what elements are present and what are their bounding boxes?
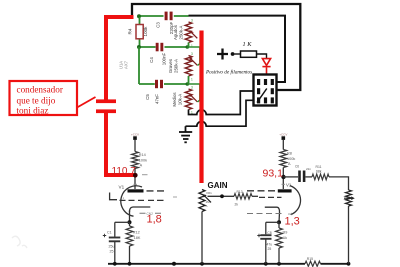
wire anode feed <box>134 169 136 190</box>
node: row3 junction pot <box>186 82 190 86</box>
wire <box>235 53 241 55</box>
wire <box>306 176 313 178</box>
svg-text:R14: R14 <box>139 153 146 157</box>
svg-text:100k: 100k <box>287 157 295 161</box>
capacitor C3 <box>156 12 175 35</box>
svg-text:A: A <box>206 204 208 208</box>
svg-text:V1: V1 <box>286 183 292 188</box>
red wire: cap to tone stack input (top) <box>106 17 134 101</box>
resistor R8 <box>280 150 295 168</box>
node: V2 cathode junction <box>277 220 281 224</box>
svg-text:GAIN: GAIN <box>208 181 228 190</box>
node <box>220 194 224 198</box>
condensador cap plates <box>96 99 116 103</box>
wire to C1 <box>115 221 130 223</box>
connector CN1 (socket) <box>254 75 277 106</box>
wire to C8 <box>266 221 279 223</box>
svg-text:18K: 18K <box>134 236 141 240</box>
node: row2 junction pot <box>186 45 190 49</box>
wire <box>257 54 267 58</box>
svg-text:+CCV: +CCV <box>279 132 287 136</box>
svg-text:R15: R15 <box>307 257 313 261</box>
node: V1 anode junction <box>133 173 137 177</box>
ground <box>179 126 192 142</box>
svg-text:A: A <box>140 164 143 168</box>
svg-text:A: A <box>288 162 291 166</box>
wire B: ground to connector (hops red line) <box>186 100 254 126</box>
svg-text:V1: V1 <box>119 184 125 189</box>
svg-text:250k-A: 250k-A <box>173 59 178 73</box>
wire anode feed V2 <box>282 168 284 190</box>
svg-text:C4: C4 <box>149 57 154 63</box>
svg-text:toni diaz: toni diaz <box>17 106 49 116</box>
svg-text:C3: C3 <box>156 22 161 28</box>
potentiometer Graves 250k-A <box>168 47 200 84</box>
svg-text:C8: C8 <box>267 231 271 235</box>
wire: tone row2 green <box>139 46 189 48</box>
red wire: cap down to V1 anode node <box>106 112 137 175</box>
wire anode row to C6 <box>284 176 299 178</box>
svg-text:C6: C6 <box>295 164 299 168</box>
svg-text:+CCV: +CCV <box>131 132 139 136</box>
svg-text:R13: R13 <box>237 190 243 194</box>
svg-text:3: 3 <box>191 52 193 56</box>
svg-text:C5: C5 <box>145 94 150 100</box>
red wire: tone output to GAIN (vertical) <box>199 31 203 184</box>
svg-text:Positivo de filamentos: Positivo de filamentos <box>205 69 252 76</box>
node: row2 junction left <box>137 45 141 49</box>
node: row1 junction <box>137 14 141 18</box>
svg-text:3: 3 <box>191 19 193 23</box>
svg-text:que te dijo: que te dijo <box>17 96 56 106</box>
resistor R9 <box>276 222 288 263</box>
svg-text:47u: 47u <box>267 243 273 247</box>
triode V1 <box>110 184 164 216</box>
svg-text:AX7: AX7 <box>124 60 129 69</box>
capacitor C8 <box>257 222 272 263</box>
resistor R4 <box>128 17 149 47</box>
svg-text:2k: 2k <box>235 202 239 206</box>
resistor R13 <box>234 190 258 207</box>
svg-text:1 K: 1 K <box>243 41 253 48</box>
svg-text:25u: 25u <box>109 244 115 248</box>
svg-text:25: 25 <box>268 247 272 251</box>
wire: V1 cathode down <box>129 211 131 223</box>
node: V1 anode junction (over red) <box>133 173 138 178</box>
svg-text:R4: R4 <box>128 28 133 34</box>
wire A: Medios bottom to connector (hops red line) <box>189 91 254 115</box>
svg-text:110,7: 110,7 <box>112 166 137 177</box>
resistor R11 <box>312 165 329 180</box>
svg-text:22n: 22n <box>306 167 311 171</box>
triode V2 <box>247 183 301 223</box>
node: V2 anode junction <box>281 175 285 179</box>
capacitor C6 <box>295 164 311 182</box>
potentiometer Medios 10k-A <box>172 84 200 115</box>
svg-text:93,1: 93,1 <box>263 168 284 180</box>
wire <box>134 140 136 152</box>
wire: left green rail row2-row3 <box>138 47 140 84</box>
resistor R14 <box>132 152 148 169</box>
wire: outer black loop from tone-stack input to connector right <box>132 4 300 90</box>
node: V1 cathode junction <box>128 220 132 224</box>
svg-text:1: 1 <box>191 78 193 82</box>
resistor 1K (box) <box>241 51 257 57</box>
svg-text:100nF: 100nF <box>162 52 167 65</box>
capacitor C4 <box>149 43 167 65</box>
svg-text:1: 1 <box>123 196 125 200</box>
svg-text:Medios: Medios <box>172 92 177 107</box>
svg-text:68k: 68k <box>316 169 322 173</box>
capacitor C1 <box>103 222 121 263</box>
svg-text:VR1: VR1 <box>206 191 212 195</box>
node +CCV (V1 supply) <box>131 132 139 140</box>
wire <box>282 140 284 150</box>
faint pencil smudge bottom-left <box>12 236 27 248</box>
diode D1 (red LED) <box>262 59 270 80</box>
wire to output pot <box>329 177 349 190</box>
svg-text:47nF: 47nF <box>155 94 160 104</box>
svg-text:250k-A: 250k-A <box>178 25 183 39</box>
wire: tone row3 green <box>139 83 189 85</box>
node dot after plus <box>231 52 235 56</box>
svg-text:R9: R9 <box>283 231 288 235</box>
capacitor C5 <box>145 80 163 104</box>
ground bus <box>108 262 350 266</box>
svg-text:condensador: condensador <box>17 85 63 95</box>
annotation leader line <box>77 97 96 108</box>
svg-text:1,3: 1,3 <box>285 215 300 227</box>
svg-text:C1: C1 <box>107 231 112 235</box>
svg-text:Agudos: Agudos <box>173 24 178 40</box>
svg-text:10k-A: 10k-A <box>177 94 182 106</box>
plus symbol (filament positive) <box>217 49 228 60</box>
svg-text:3: 3 <box>191 86 193 90</box>
resistor R12 <box>126 222 141 263</box>
svg-text:100k: 100k <box>139 158 147 162</box>
wire: inner black loop from Agudos top to connector right <box>189 16 286 82</box>
svg-text:Graves: Graves <box>168 58 173 73</box>
wire: GAIN wiper to R13 <box>208 195 235 197</box>
svg-text:1k: 1k <box>283 236 287 240</box>
potentiometer Agudos 250k-A <box>173 19 197 49</box>
wire: tone row1 green <box>139 15 189 17</box>
resistor R15 (in bus) <box>305 257 321 266</box>
annotation box <box>10 81 78 115</box>
faint pin mark <box>142 174 148 176</box>
node +CCV (V2 supply) <box>279 132 287 140</box>
svg-text:R12: R12 <box>133 231 140 235</box>
svg-text:25: 25 <box>110 249 114 253</box>
potentiometer output <box>344 190 355 264</box>
label 12AX7 <box>119 60 129 69</box>
svg-text:1,8: 1,8 <box>147 213 162 225</box>
svg-text:100k: 100k <box>143 26 148 37</box>
potentiometer GAIN <box>173 181 228 264</box>
svg-text:R8: R8 <box>287 151 292 155</box>
